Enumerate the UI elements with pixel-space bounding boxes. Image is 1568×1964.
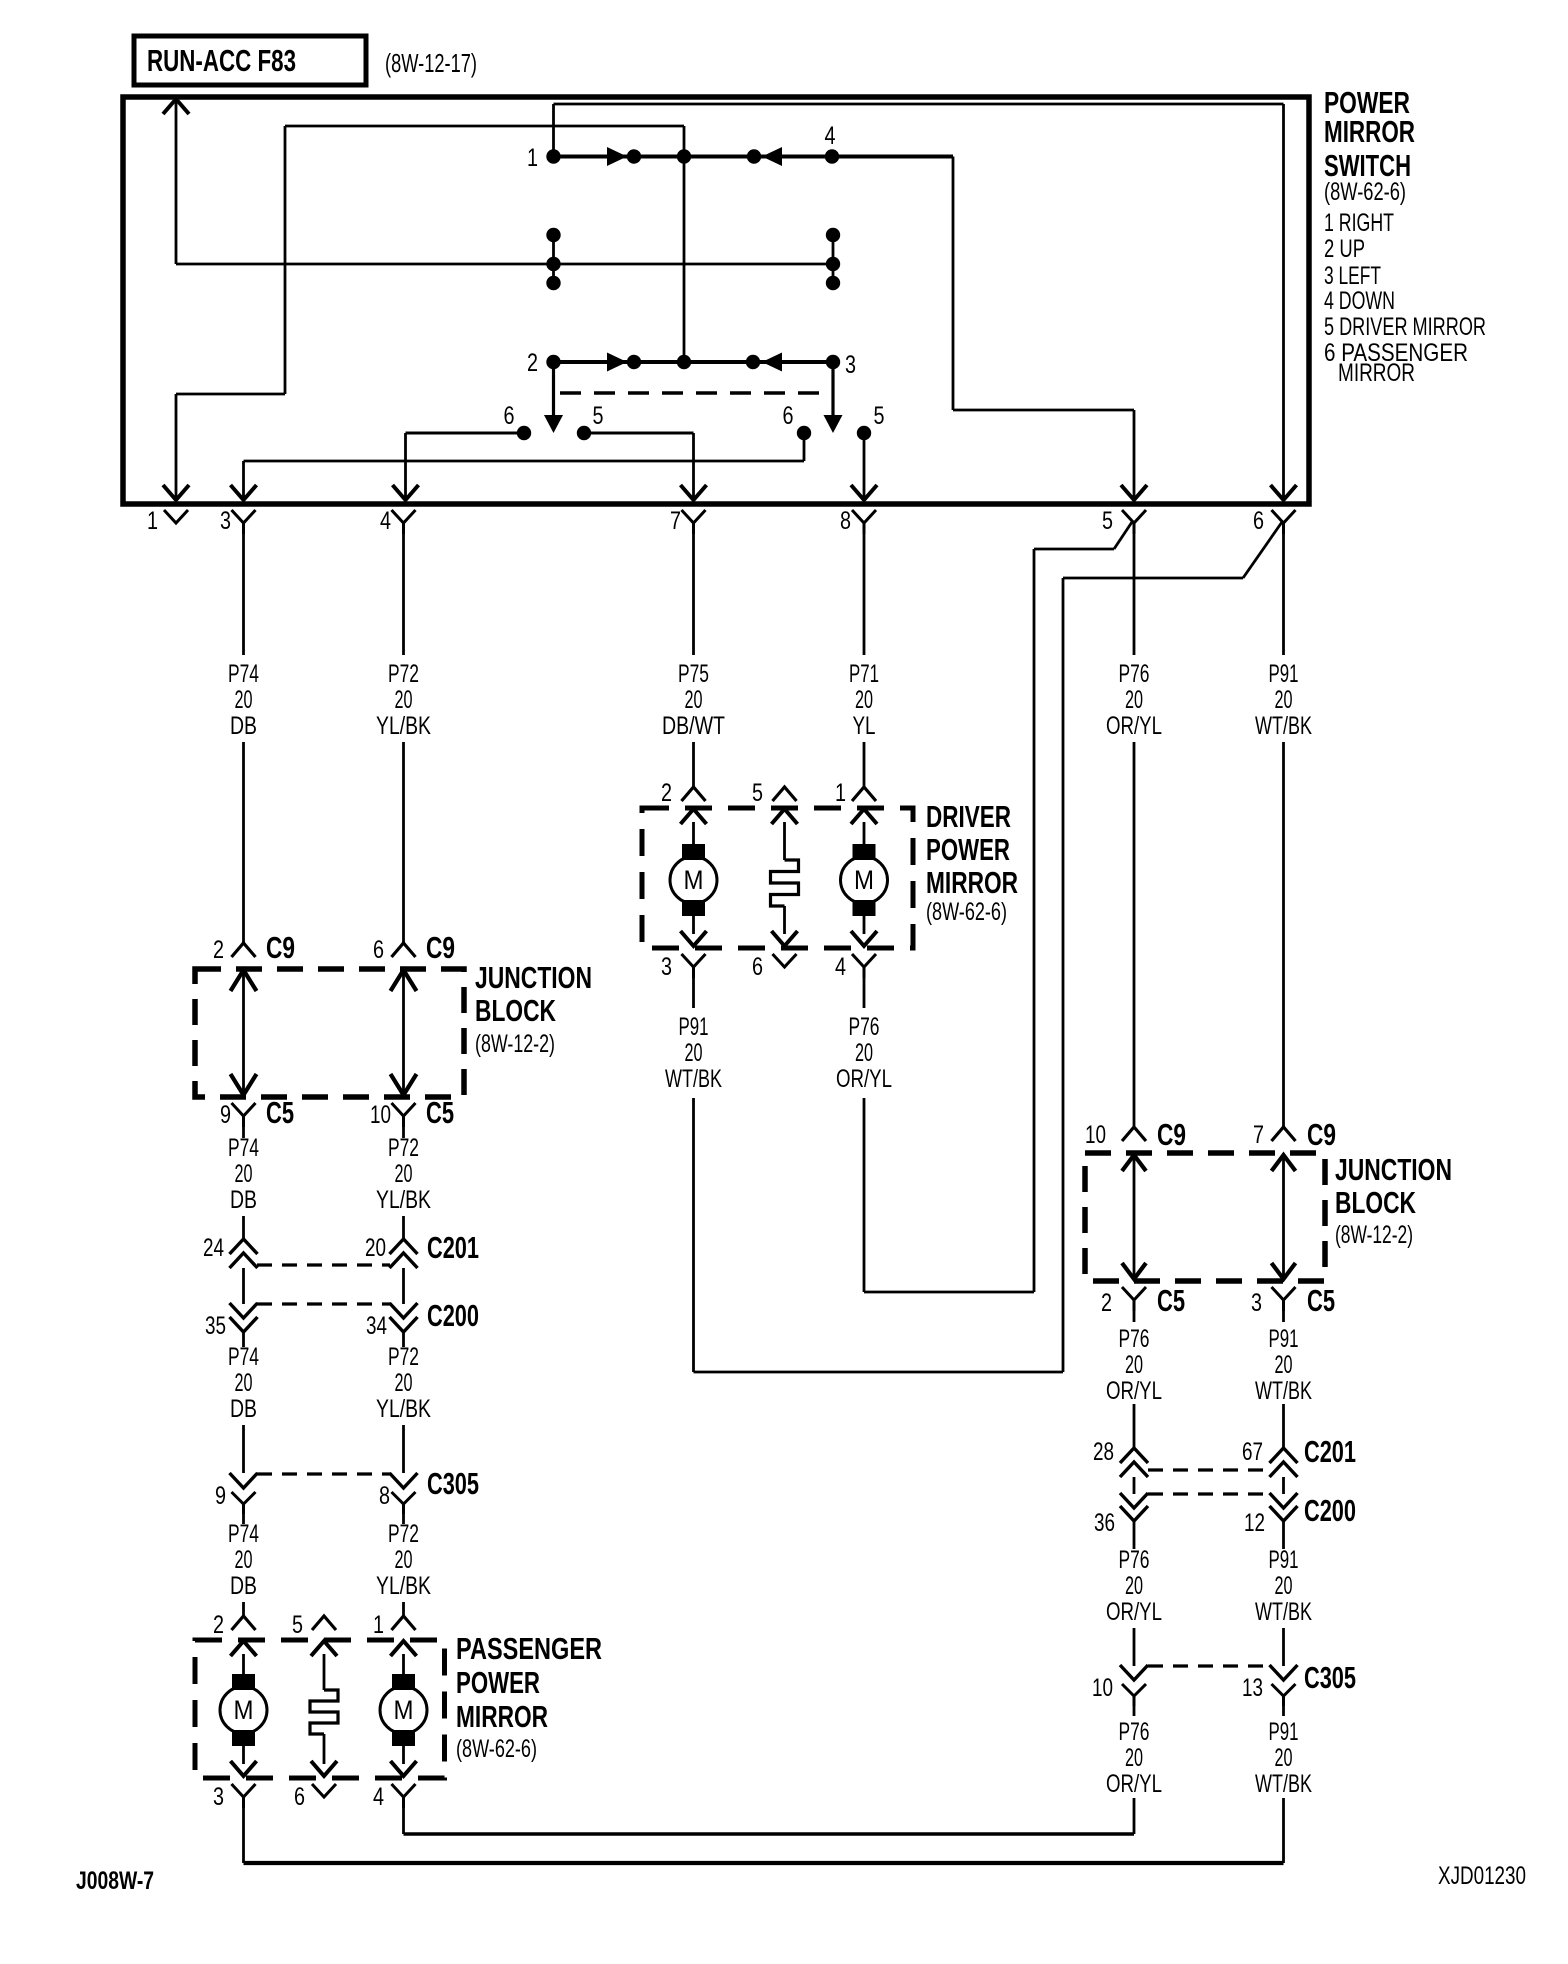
svg-text:C200: C200 bbox=[427, 1299, 479, 1333]
wire P72 pin4 to junction block bbox=[402, 534, 405, 943]
svg-text:(8W-62-6): (8W-62-6) bbox=[926, 898, 1007, 926]
center-off contact dots left bbox=[546, 228, 560, 290]
svg-text:20: 20 bbox=[685, 1039, 703, 1067]
reference (8W-12-17) bbox=[385, 48, 477, 78]
svg-text:20: 20 bbox=[235, 686, 253, 714]
wire label P72 (top) bbox=[376, 660, 431, 740]
svg-text:7: 7 bbox=[670, 507, 681, 535]
moving contact arm right bbox=[824, 362, 843, 433]
driver power mirror title bbox=[926, 799, 1018, 926]
left JB pin 6 C9 bbox=[373, 931, 455, 965]
driver mirror up/down motor bbox=[670, 809, 717, 946]
driver mirror pin 2 connector bbox=[661, 779, 706, 807]
svg-text:20: 20 bbox=[1125, 1744, 1143, 1772]
svg-text:DRIVER: DRIVER bbox=[926, 799, 1011, 834]
wire label P76 (bottom) bbox=[1106, 1718, 1162, 1798]
svg-text:P76: P76 bbox=[1119, 1546, 1150, 1574]
wire P74 JB to C201 bbox=[242, 1127, 245, 1239]
left junction block title bbox=[475, 960, 592, 1058]
wire P74 C200 to C305 bbox=[242, 1341, 245, 1473]
svg-text:P91: P91 bbox=[1269, 1325, 1299, 1353]
wire P74 pin3 to junction block bbox=[242, 534, 245, 943]
wire center vertical row1-row2 bbox=[683, 126, 686, 362]
svg-text:20: 20 bbox=[1275, 1572, 1293, 1600]
passenger mirror sensor resistor bbox=[310, 1641, 338, 1776]
right JB pin 3 C5 bbox=[1251, 1284, 1335, 1318]
svg-text:4: 4 bbox=[380, 507, 391, 535]
driver mirror pin 1 connector bbox=[835, 779, 876, 807]
svg-text:6: 6 bbox=[752, 953, 763, 981]
wire P91 C200 to C305 bbox=[1282, 1531, 1285, 1666]
svg-text:6: 6 bbox=[783, 402, 794, 430]
wire label P74 (lower) bbox=[228, 1343, 259, 1423]
svg-text:MIRROR: MIRROR bbox=[1338, 359, 1415, 387]
wire label P72 (lower) bbox=[376, 1343, 431, 1423]
wire label P71 bbox=[849, 660, 879, 740]
wire P76 from driver mirror pin4 bbox=[863, 978, 866, 1292]
svg-text:10: 10 bbox=[1092, 1674, 1113, 1702]
left junction block box bbox=[195, 969, 464, 1097]
driver mirror sensor resistor bbox=[771, 809, 799, 946]
driver mirror left/right motor bbox=[841, 809, 888, 946]
passenger mirror pin 4 connector bbox=[373, 1783, 416, 1811]
switch pin 4 bbox=[380, 507, 416, 535]
connector C200 right half (pins 35/34) bbox=[205, 1299, 479, 1341]
wire P75 pin7 to driver mirror bbox=[692, 534, 695, 787]
svg-text:P72: P72 bbox=[388, 1343, 419, 1371]
svg-text:P71: P71 bbox=[849, 660, 879, 688]
svg-text:C201: C201 bbox=[427, 1231, 479, 1265]
wire P76 C305 down bbox=[1133, 1706, 1136, 1834]
wire passenger pin3 to P91 chain bbox=[244, 1807, 1284, 1863]
driver mirror pin 5 connector bbox=[752, 779, 797, 807]
svg-text:67: 67 bbox=[1242, 1438, 1263, 1466]
svg-text:P91: P91 bbox=[1269, 1546, 1299, 1574]
wire down to pin 6 bbox=[1271, 104, 1297, 500]
svg-text:9: 9 bbox=[215, 1482, 226, 1510]
wire label P75 bbox=[662, 660, 725, 740]
svg-text:5: 5 bbox=[292, 1611, 303, 1639]
svg-text:1 RIGHT: 1 RIGHT bbox=[1324, 209, 1394, 237]
svg-text:RUN-ACC F83: RUN-ACC F83 bbox=[147, 43, 296, 78]
svg-text:10: 10 bbox=[1085, 1121, 1106, 1149]
svg-text:5: 5 bbox=[874, 402, 885, 430]
svg-text:20: 20 bbox=[235, 1369, 253, 1397]
wire P76 JB to C201 bbox=[1133, 1311, 1136, 1448]
wire between right C201 and C200 bbox=[1134, 1477, 1284, 1494]
svg-text:2 UP: 2 UP bbox=[1324, 235, 1365, 263]
wire label P91 (driver) bbox=[665, 1013, 722, 1093]
svg-text:2: 2 bbox=[213, 1611, 224, 1639]
svg-text:MIRROR: MIRROR bbox=[456, 1699, 548, 1734]
left JB pin 10 C5 bbox=[370, 1096, 454, 1130]
wire P74 C305 to passenger mirror bbox=[242, 1514, 245, 1616]
left JB pin 9 C5 bbox=[220, 1096, 294, 1130]
wire P91 JB to C201 bbox=[1282, 1311, 1285, 1448]
svg-text:M: M bbox=[394, 1695, 414, 1725]
svg-text:35: 35 bbox=[205, 1312, 226, 1340]
svg-text:YL/BK: YL/BK bbox=[376, 1395, 431, 1423]
connector C201 left half (pins 24/20) bbox=[203, 1231, 479, 1268]
svg-text:20: 20 bbox=[365, 1234, 386, 1262]
svg-text:DB: DB bbox=[230, 1395, 257, 1423]
svg-text:20: 20 bbox=[235, 1546, 253, 1574]
svg-text:5 DRIVER MIRROR: 5 DRIVER MIRROR bbox=[1324, 313, 1486, 341]
right JB pin 2 C5 bbox=[1101, 1284, 1185, 1318]
wire pin6 branch to driver mirror pin3 bbox=[694, 522, 1283, 1372]
svg-text:C201: C201 bbox=[1304, 1435, 1356, 1469]
svg-text:M: M bbox=[684, 865, 704, 895]
svg-text:WT/BK: WT/BK bbox=[1255, 1770, 1312, 1798]
wire label P74 (bottom) bbox=[228, 1520, 259, 1600]
svg-text:P91: P91 bbox=[1269, 1718, 1299, 1746]
wire row1 to top bus bbox=[552, 104, 555, 157]
right JB pin 7 C9 bbox=[1253, 1118, 1336, 1152]
wire label P76 (driver) bbox=[836, 1013, 892, 1093]
mechanical link dashed bbox=[560, 391, 827, 394]
wire row1 right to pin 5 bbox=[832, 157, 1147, 501]
svg-text:YL: YL bbox=[853, 712, 876, 740]
wire contact 5 to pin 7 bbox=[584, 433, 707, 500]
svg-text:P74: P74 bbox=[228, 1520, 259, 1548]
svg-text:10: 10 bbox=[370, 1101, 391, 1129]
svg-text:M: M bbox=[234, 1695, 254, 1725]
label 4 (row 1) bbox=[825, 122, 836, 150]
svg-text:2: 2 bbox=[1101, 1289, 1112, 1317]
svg-text:4: 4 bbox=[835, 953, 846, 981]
svg-text:3 LEFT: 3 LEFT bbox=[1324, 262, 1381, 290]
svg-text:WT/BK: WT/BK bbox=[1255, 712, 1312, 740]
svg-text:9: 9 bbox=[220, 1101, 231, 1129]
svg-text:20: 20 bbox=[855, 1039, 873, 1067]
top bus wire to pin 6 bbox=[554, 103, 1284, 106]
svg-text:4: 4 bbox=[373, 1783, 384, 1811]
driver mirror pin 3 connector bbox=[661, 953, 706, 981]
wire label P74 (top) bbox=[228, 660, 259, 740]
passenger mirror pin 6 connector bbox=[294, 1783, 336, 1811]
svg-text:MIRROR: MIRROR bbox=[1324, 114, 1415, 149]
svg-text:C9: C9 bbox=[266, 931, 295, 965]
switch pin 6 bbox=[1253, 507, 1296, 535]
svg-text:24: 24 bbox=[203, 1234, 224, 1262]
wire label P91 (top) bbox=[1255, 660, 1312, 740]
label 2 (row 2) bbox=[527, 349, 538, 377]
svg-text:8: 8 bbox=[840, 507, 851, 535]
power mirror switch box outline bbox=[123, 97, 1309, 504]
right JB pin 10 C9 bbox=[1085, 1118, 1186, 1152]
svg-text:1: 1 bbox=[373, 1611, 384, 1639]
svg-text:20: 20 bbox=[395, 686, 413, 714]
wire label P76 (top) bbox=[1106, 660, 1162, 740]
svg-text:JUNCTION: JUNCTION bbox=[1335, 1152, 1452, 1187]
svg-text:P76: P76 bbox=[1119, 1718, 1150, 1746]
fuse feed label box RUN-ACC F83 bbox=[134, 36, 366, 85]
svg-text:PASSENGER: PASSENGER bbox=[456, 1631, 602, 1666]
svg-text:20: 20 bbox=[1275, 1744, 1293, 1772]
left JB pin 2 C9 bbox=[213, 931, 295, 965]
svg-text:J008W-7: J008W-7 bbox=[76, 1867, 154, 1895]
connector C200 half (pins 36/12) bbox=[1094, 1493, 1356, 1537]
svg-text:6: 6 bbox=[504, 402, 515, 430]
svg-text:20: 20 bbox=[395, 1546, 413, 1574]
svg-text:C305: C305 bbox=[427, 1467, 479, 1501]
svg-text:JUNCTION: JUNCTION bbox=[475, 960, 592, 995]
power mirror switch title text bbox=[1324, 85, 1486, 387]
svg-text:20: 20 bbox=[685, 686, 703, 714]
passenger mirror left/right motor bbox=[380, 1641, 427, 1776]
switch pin 5 bbox=[1102, 507, 1146, 535]
label 1 (row 1) bbox=[527, 144, 538, 172]
svg-text:P76: P76 bbox=[1119, 1325, 1150, 1353]
wire label P91 (bottom) bbox=[1255, 1718, 1312, 1798]
svg-text:1: 1 bbox=[527, 144, 538, 172]
svg-text:YL/BK: YL/BK bbox=[376, 712, 431, 740]
svg-text:4 DOWN: 4 DOWN bbox=[1324, 287, 1395, 315]
wire P91 pin6 to right junction block bbox=[1282, 534, 1285, 1127]
svg-text:POWER: POWER bbox=[926, 832, 1010, 867]
wire contact 6b to pin 3 bbox=[231, 433, 805, 500]
wire label P76 (lower) bbox=[1106, 1546, 1162, 1626]
svg-text:5: 5 bbox=[752, 779, 763, 807]
svg-text:YL/BK: YL/BK bbox=[376, 1186, 431, 1214]
svg-text:20: 20 bbox=[1275, 1351, 1293, 1379]
svg-text:8: 8 bbox=[379, 1482, 390, 1510]
driver mirror pin 6 connector bbox=[752, 953, 797, 981]
svg-text:WT/BK: WT/BK bbox=[1255, 1598, 1312, 1626]
svg-text:C5: C5 bbox=[1157, 1284, 1185, 1318]
svg-text:34: 34 bbox=[366, 1312, 387, 1340]
svg-text:C5: C5 bbox=[266, 1096, 294, 1130]
wire label P72 (mid) bbox=[376, 1134, 431, 1214]
wire passenger pin4 to P76 chain bbox=[404, 1807, 1135, 1834]
svg-text:OR/YL: OR/YL bbox=[1106, 712, 1162, 740]
switch pin 8 bbox=[840, 507, 876, 535]
svg-text:DB: DB bbox=[230, 1186, 257, 1214]
common bus wire bbox=[176, 263, 833, 266]
wire label P74 (mid) bbox=[228, 1134, 259, 1214]
passenger mirror up/down motor bbox=[220, 1641, 267, 1776]
wire P72 JB to C201 bbox=[402, 1127, 405, 1239]
right junction block box bbox=[1085, 1153, 1325, 1281]
svg-text:5: 5 bbox=[593, 402, 604, 430]
svg-text:P76: P76 bbox=[849, 1013, 880, 1041]
svg-text:3: 3 bbox=[213, 1783, 224, 1811]
svg-text:C200: C200 bbox=[1304, 1494, 1356, 1528]
wire label P76 (mid) bbox=[1106, 1325, 1162, 1405]
svg-text:P75: P75 bbox=[678, 660, 709, 688]
driver mirror pin 4 connector bbox=[835, 953, 876, 981]
wire P76 C200 to C305 bbox=[1133, 1531, 1136, 1666]
wire P91 C305 down bbox=[1282, 1706, 1285, 1863]
svg-text:3: 3 bbox=[661, 953, 672, 981]
right junction block title bbox=[1335, 1152, 1452, 1249]
svg-text:BLOCK: BLOCK bbox=[1335, 1185, 1416, 1220]
center-off contact dots right bbox=[826, 228, 840, 290]
svg-text:WT/BK: WT/BK bbox=[665, 1065, 722, 1093]
wire label P72 (bottom) bbox=[376, 1520, 431, 1600]
svg-text:2: 2 bbox=[527, 349, 538, 377]
svg-text:(8W-62-6): (8W-62-6) bbox=[456, 1735, 537, 1763]
passenger mirror pin 5 connector bbox=[292, 1611, 336, 1639]
svg-text:(8W-12-2): (8W-12-2) bbox=[1335, 1221, 1413, 1249]
svg-text:P74: P74 bbox=[228, 660, 259, 688]
wire pin5 branch to driver mirror pin4 bbox=[864, 522, 1132, 1292]
svg-text:20: 20 bbox=[1125, 1351, 1143, 1379]
svg-text:1: 1 bbox=[835, 779, 846, 807]
feed wire from fuse into switch bbox=[163, 99, 189, 264]
svg-text:C9: C9 bbox=[1307, 1118, 1336, 1152]
svg-text:P72: P72 bbox=[388, 1134, 419, 1162]
svg-text:DB: DB bbox=[230, 1572, 257, 1600]
svg-text:OR/YL: OR/YL bbox=[1106, 1377, 1162, 1405]
switch row 2 contact wire (UP/LEFT) bbox=[546, 353, 840, 372]
left JB internal wire 2-9 bbox=[231, 970, 257, 1095]
svg-text:MIRROR: MIRROR bbox=[926, 865, 1018, 900]
svg-text:(8W-12-2): (8W-12-2) bbox=[475, 1030, 555, 1058]
svg-text:P76: P76 bbox=[1119, 660, 1150, 688]
wire contact 5b to pin 8 bbox=[851, 433, 877, 500]
wire label P91 (lower) bbox=[1255, 1546, 1312, 1626]
svg-text:20: 20 bbox=[395, 1369, 413, 1397]
driver power mirror box bbox=[642, 808, 913, 948]
svg-text:P74: P74 bbox=[228, 1134, 259, 1162]
svg-text:P91: P91 bbox=[679, 1013, 709, 1041]
svg-text:20: 20 bbox=[1125, 686, 1143, 714]
connector C305 right (pins 10/13) bbox=[1092, 1661, 1356, 1706]
svg-text:OR/YL: OR/YL bbox=[1106, 1598, 1162, 1626]
wire P76 pin5 to right junction block bbox=[1133, 534, 1136, 1127]
svg-text:C5: C5 bbox=[426, 1096, 454, 1130]
svg-text:DB: DB bbox=[230, 712, 257, 740]
svg-text:20: 20 bbox=[1275, 686, 1293, 714]
svg-text:OR/YL: OR/YL bbox=[1106, 1770, 1162, 1798]
svg-text:13: 13 bbox=[1242, 1674, 1263, 1702]
svg-text:C305: C305 bbox=[1304, 1661, 1356, 1695]
left JB internal wire 6-10 bbox=[391, 970, 417, 1095]
svg-text:20: 20 bbox=[235, 1160, 253, 1188]
svg-text:20: 20 bbox=[855, 686, 873, 714]
moving contact arm left bbox=[544, 362, 563, 433]
passenger power mirror box bbox=[195, 1640, 445, 1778]
svg-text:YL/BK: YL/BK bbox=[376, 1572, 431, 1600]
connector C305 left (pins 9/8) bbox=[215, 1467, 479, 1514]
wire between C201 and C200 bbox=[244, 1268, 404, 1304]
svg-text:P74: P74 bbox=[228, 1343, 259, 1371]
svg-text:P91: P91 bbox=[1269, 660, 1299, 688]
switch pin 3 bbox=[220, 507, 256, 535]
svg-text:2: 2 bbox=[213, 936, 224, 964]
svg-text:6: 6 bbox=[294, 1783, 305, 1811]
svg-text:20: 20 bbox=[1125, 1572, 1143, 1600]
svg-text:C9: C9 bbox=[1157, 1118, 1186, 1152]
contact labels 6 5 6 5 bbox=[504, 402, 885, 430]
svg-text:(8W-12-17): (8W-12-17) bbox=[385, 48, 477, 78]
svg-text:P72: P72 bbox=[388, 660, 419, 688]
svg-text:BLOCK: BLOCK bbox=[475, 993, 556, 1028]
svg-text:6: 6 bbox=[1253, 507, 1264, 535]
svg-text:C9: C9 bbox=[426, 931, 455, 965]
svg-text:DB/WT: DB/WT bbox=[662, 712, 725, 740]
svg-text:3: 3 bbox=[845, 351, 856, 379]
svg-text:C5: C5 bbox=[1307, 1284, 1335, 1318]
svg-text:WT/BK: WT/BK bbox=[1255, 1377, 1312, 1405]
switch pin 1 bbox=[147, 507, 188, 535]
svg-text:3: 3 bbox=[220, 507, 231, 535]
svg-text:P72: P72 bbox=[388, 1520, 419, 1548]
passenger power mirror title bbox=[456, 1631, 602, 1763]
label 3 (row 2) bbox=[845, 351, 856, 379]
svg-text:OR/YL: OR/YL bbox=[836, 1065, 892, 1093]
wire P72 C200 to C305 bbox=[402, 1341, 405, 1473]
wire label P91 (mid) bbox=[1255, 1325, 1312, 1405]
svg-text:5: 5 bbox=[1102, 507, 1113, 535]
svg-text:3: 3 bbox=[1251, 1289, 1262, 1317]
svg-text:6: 6 bbox=[373, 936, 384, 964]
svg-text:M: M bbox=[854, 865, 874, 895]
switch row 1 contact wire (RIGHT/DOWN) bbox=[546, 147, 953, 166]
connector C201 right half (pins 28/67) bbox=[1093, 1435, 1356, 1477]
svg-text:2: 2 bbox=[661, 779, 672, 807]
sheet code J008W-7 bbox=[76, 1867, 154, 1895]
sheet code XJD01230 bbox=[1438, 1862, 1526, 1890]
svg-text:1: 1 bbox=[147, 507, 158, 535]
svg-text:XJD01230: XJD01230 bbox=[1438, 1862, 1526, 1890]
passenger mirror pin 1 connector bbox=[373, 1611, 416, 1639]
svg-text:4: 4 bbox=[825, 122, 836, 150]
svg-text:20: 20 bbox=[395, 1160, 413, 1188]
switch pin 7 bbox=[670, 507, 706, 535]
svg-text:28: 28 bbox=[1093, 1438, 1114, 1466]
svg-text:POWER: POWER bbox=[456, 1665, 540, 1700]
wire contact 6 to pin 4 bbox=[393, 433, 525, 500]
svg-text:12: 12 bbox=[1244, 1509, 1265, 1537]
right JB internal wire 10-2 bbox=[1122, 1155, 1146, 1279]
passenger mirror pin 2 connector bbox=[213, 1611, 256, 1639]
wire upper-left jog to pin 1 bbox=[163, 126, 684, 500]
svg-text:(8W-62-6): (8W-62-6) bbox=[1324, 178, 1406, 206]
svg-text:7: 7 bbox=[1253, 1121, 1264, 1149]
right JB internal wire 7-3 bbox=[1272, 1155, 1296, 1279]
svg-text:36: 36 bbox=[1094, 1509, 1115, 1537]
mirror select contact dots bbox=[517, 426, 871, 440]
wire P72 C305 to passenger mirror bbox=[402, 1514, 405, 1616]
wire P71 pin8 to driver mirror bbox=[863, 534, 866, 787]
wire P91 from driver mirror pin3 bbox=[692, 978, 695, 1372]
passenger mirror pin 3 connector bbox=[213, 1783, 256, 1811]
